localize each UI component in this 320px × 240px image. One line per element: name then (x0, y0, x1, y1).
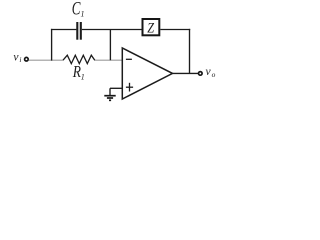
svg-text:Z: Z (147, 20, 154, 36)
op-amp non-inverting pin mark (126, 86, 133, 88)
svg-text:o: o (212, 70, 216, 79)
op-amp U1 (122, 48, 172, 99)
impedance Z box (143, 19, 160, 35)
op-amp inverting pin mark (126, 58, 132, 60)
wire top branch left segment (51, 29, 76, 31)
wire right riser down to output (189, 29, 191, 74)
svg-text:1: 1 (81, 72, 85, 81)
node vi input terminal (25, 57, 29, 61)
capacitor C1 (76, 22, 78, 40)
wire top branch Z box to right corner (160, 29, 190, 31)
wire junction drop to inverting node (109, 30, 111, 61)
resistor R1 (63, 55, 95, 63)
wire non-inverting input to ground (110, 87, 122, 89)
wire main input (gray) resistor to op-amp (95, 59, 123, 61)
node vo output terminal (199, 72, 203, 76)
svg-text:i: i (19, 55, 21, 64)
wire main input (gray) left of resistor (29, 59, 64, 61)
svg-text:v: v (206, 66, 212, 78)
wire left riser to capacitor branch (51, 29, 53, 61)
svg-text:1: 1 (81, 10, 85, 19)
ground (109, 88, 111, 95)
wire top branch capacitor to Z box (82, 29, 142, 31)
wire output (173, 72, 199, 74)
